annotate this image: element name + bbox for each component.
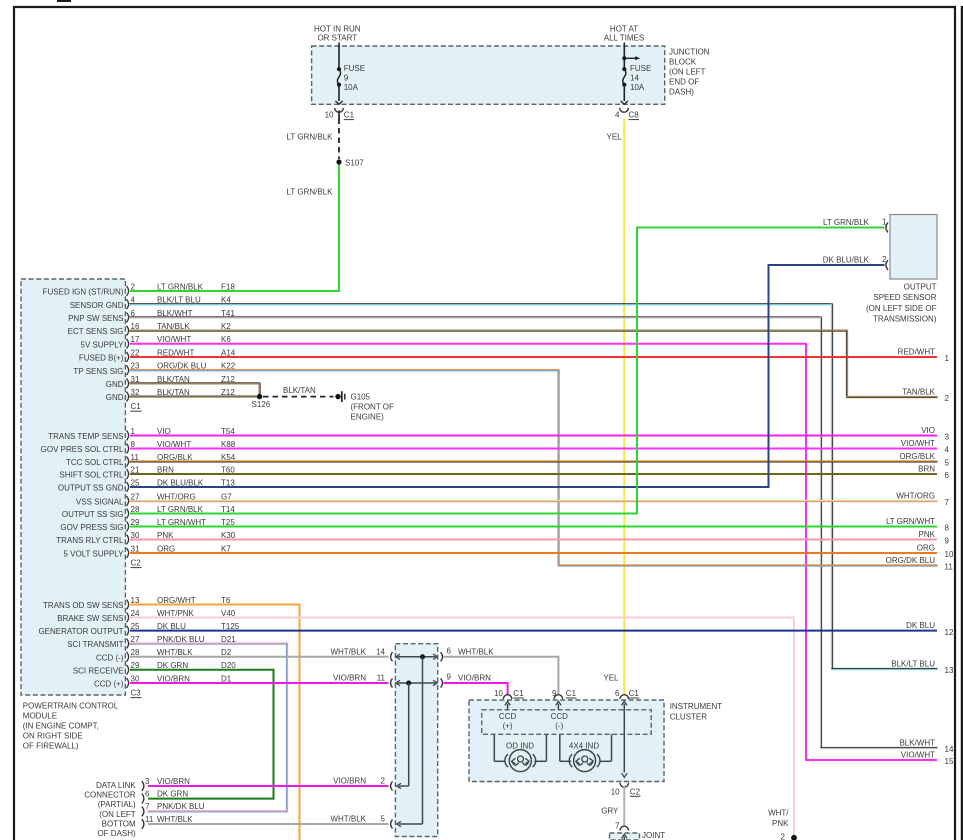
PCM pin 27 VSS SIGNAL WHT/ORG G7 bbox=[76, 492, 232, 506]
svg-text:OR START: OR START bbox=[317, 34, 357, 43]
svg-text:TCC SOL CTRL: TCC SOL CTRL bbox=[66, 458, 124, 467]
right pin 2 TAN/BLK bbox=[902, 387, 949, 403]
svg-text:GENERATOR OUTPUT: GENERATOR OUTPUT bbox=[38, 627, 123, 636]
svg-text:PNK/DK BLU: PNK/DK BLU bbox=[157, 802, 205, 811]
svg-text:VIO/BRN: VIO/BRN bbox=[157, 777, 190, 786]
svg-text:CONNECTOR: CONNECTOR bbox=[84, 791, 136, 800]
wire GRY (cluster C2-10 to joint conn 7) bbox=[623, 786, 625, 827]
svg-text:FUSE: FUSE bbox=[630, 64, 651, 73]
svg-text:OF FIREWALL): OF FIREWALL) bbox=[23, 741, 79, 750]
svg-text:6: 6 bbox=[945, 471, 950, 480]
svg-text:LT GRN/BLK: LT GRN/BLK bbox=[287, 188, 334, 197]
svg-text:VSS SIGNAL: VSS SIGNAL bbox=[76, 498, 124, 507]
junction conn pin 11 (left) bbox=[333, 674, 392, 688]
svg-text:4: 4 bbox=[615, 111, 620, 120]
output speed sensor box bbox=[890, 215, 937, 280]
svg-text:(+): (+) bbox=[503, 722, 513, 731]
PCM pin 22 FUSED B(+) RED/WHT A14 bbox=[79, 348, 236, 362]
svg-text:OF DASH): OF DASH) bbox=[97, 829, 136, 838]
svg-text:(ON LEFT: (ON LEFT bbox=[669, 68, 706, 77]
right pin 10 ORG bbox=[917, 543, 954, 559]
svg-text:C8: C8 bbox=[629, 111, 640, 120]
svg-text:6: 6 bbox=[447, 646, 452, 655]
svg-text:10: 10 bbox=[325, 111, 334, 120]
svg-text:CCD (-): CCD (-) bbox=[96, 653, 124, 662]
PCM pin 2 FUSED IGN (ST/RUN) LT GRN/BLK F18 bbox=[43, 282, 236, 296]
svg-text:11: 11 bbox=[945, 563, 954, 572]
svg-text:TAN/BLK: TAN/BLK bbox=[902, 387, 935, 396]
wire LT GRN/BLK F18 (S107 to PCM pin 2) bbox=[130, 162, 339, 291]
PCM pin 11 TCC SOL CTRL ORG/BLK K54 bbox=[66, 453, 236, 467]
svg-text:GOV PRESS SIG: GOV PRESS SIG bbox=[60, 523, 123, 532]
cluster connector C1 pin 9 bbox=[552, 689, 577, 710]
PCM pin 21 SHIFT SOL CTRL BRN T60 bbox=[59, 465, 235, 479]
wire BLK/LT BLU K4 (PCM 4 to pin 13) bbox=[129, 304, 937, 670]
svg-text:SPEED SENSOR: SPEED SENSOR bbox=[873, 293, 936, 302]
svg-text:VIO/BRN: VIO/BRN bbox=[333, 777, 366, 786]
wire VIO/BRN D1 (PCM 30 to junction conn 11) bbox=[130, 682, 389, 684]
wire BLK/TAN dashed to G105 bbox=[263, 396, 334, 398]
svg-text:DK BLU/BLK: DK BLU/BLK bbox=[823, 256, 870, 265]
PCM pin 30 TRANS RLY CTRL PNK K30 bbox=[56, 531, 236, 545]
right pin 5 ORG/BLK bbox=[899, 452, 949, 468]
PCM pin 32 GND BLK/TAN Z12 bbox=[106, 388, 236, 402]
DLC pin 6 DK GRN bbox=[142, 789, 189, 803]
svg-text:7: 7 bbox=[615, 821, 620, 830]
svg-text:2: 2 bbox=[945, 394, 950, 403]
svg-text:TRANS TEMP SENS: TRANS TEMP SENS bbox=[48, 432, 123, 441]
right pin 3 VIO bbox=[921, 426, 949, 442]
svg-text:(PARTIAL): (PARTIAL) bbox=[98, 800, 136, 809]
svg-text:RED/WHT: RED/WHT bbox=[898, 347, 935, 356]
svg-text:SENSOR GND: SENSOR GND bbox=[70, 301, 124, 310]
svg-text:VIO/WHT: VIO/WHT bbox=[901, 750, 935, 759]
svg-text:FUSED IGN (ST/RUN): FUSED IGN (ST/RUN) bbox=[43, 288, 124, 297]
svg-text:(ON LEFT SIDE OF: (ON LEFT SIDE OF bbox=[866, 304, 937, 313]
wire ORG K7 (PCM 31 to pin 10) bbox=[130, 552, 937, 554]
PCM pin 16 ECT SENS SIG TAN/BLK K2 bbox=[68, 322, 232, 336]
svg-text:4: 4 bbox=[945, 446, 950, 455]
svg-text:(ON LEFT: (ON LEFT bbox=[99, 810, 136, 819]
svg-text:C1: C1 bbox=[629, 689, 640, 698]
right pin 1 RED/WHT bbox=[898, 347, 950, 363]
instrument cluster outer box bbox=[469, 700, 664, 782]
svg-text:ALL TIMES: ALL TIMES bbox=[604, 34, 644, 43]
svg-text:INSTRUMENT: INSTRUMENT bbox=[670, 702, 723, 711]
svg-text:VIO/BRN: VIO/BRN bbox=[458, 674, 491, 683]
cluster internal wire to C2 bbox=[622, 704, 627, 778]
connector C8 pin 4 bbox=[615, 108, 639, 120]
svg-text:WHT/ORG: WHT/ORG bbox=[896, 491, 935, 500]
wire BRN T60 (PCM 21 to pin 6) bbox=[130, 473, 937, 475]
PCM pin 4 SENSOR GND BLK/LT BLU K4 bbox=[70, 296, 232, 310]
svg-text:13: 13 bbox=[945, 666, 954, 675]
cluster connector C1 pin 10 bbox=[494, 689, 524, 710]
powertrain control module box bbox=[21, 279, 125, 695]
svg-text:BLOCK: BLOCK bbox=[669, 58, 697, 67]
svg-text:LT GRN/BLK: LT GRN/BLK bbox=[287, 133, 334, 142]
svg-text:1: 1 bbox=[945, 354, 950, 363]
PCM pin 28 CCD (-) WHT/BLK D2 bbox=[96, 648, 232, 662]
svg-text:C3: C3 bbox=[131, 689, 142, 698]
PCM connector C3 label bbox=[131, 689, 142, 698]
PCM pin 27 SCI TRANSMIT PNK/DK BLU D21 bbox=[67, 635, 236, 649]
wire DK BLU/BLK T13 (PCM 25 to speed sensor 2) bbox=[130, 265, 885, 487]
right pin 9 PNK bbox=[919, 530, 950, 546]
svg-text:OUTPUT SS SIG: OUTPUT SS SIG bbox=[62, 510, 124, 519]
lamp OD IND bbox=[494, 734, 546, 771]
ground G105 bbox=[335, 391, 394, 421]
label HOT AT ALL TIMES bbox=[604, 25, 644, 43]
svg-text:FUSE: FUSE bbox=[344, 64, 365, 73]
label OUTPUT SPEED SENSOR bbox=[866, 283, 937, 324]
right pin 7 WHT/ORG bbox=[896, 491, 949, 507]
label POWERTRAIN CONTROL MODULE bbox=[23, 701, 119, 750]
PCM pin 29 GOV PRESS SIG LT GRN/WHT T25 bbox=[60, 518, 235, 532]
PCM connector C2 label bbox=[131, 559, 142, 568]
wire VIO/WHT K88 (PCM 8 to pin 4) bbox=[130, 448, 937, 450]
fuse 9 10A bbox=[335, 43, 365, 105]
splice S126 bbox=[252, 394, 271, 409]
svg-text:ORG/BLK: ORG/BLK bbox=[899, 452, 935, 461]
wire TAN/BLK K2 (PCM 16 to pin 2) bbox=[129, 330, 937, 398]
cluster connector C1 pin 6 bbox=[615, 689, 639, 705]
svg-text:1: 1 bbox=[882, 218, 887, 227]
svg-text:ENGINE): ENGINE) bbox=[351, 413, 385, 422]
svg-text:CCD (+): CCD (+) bbox=[94, 680, 124, 689]
svg-text:5: 5 bbox=[945, 459, 950, 468]
svg-text:DK BLU: DK BLU bbox=[906, 621, 935, 630]
svg-text:FUSED B(+): FUSED B(+) bbox=[79, 354, 124, 363]
svg-text:C1: C1 bbox=[131, 402, 142, 411]
PCM pin 17 5V SUPPLY VIO/WHT K6 bbox=[81, 335, 232, 349]
svg-text:MODULE: MODULE bbox=[23, 711, 57, 720]
wire WHT/BLK (junction 6 to cluster C1-9) bbox=[444, 657, 559, 696]
svg-text:2: 2 bbox=[882, 255, 887, 264]
PCM pin 24 BRAKE SW SENS WHT/PNK V40 bbox=[57, 609, 236, 623]
svg-text:OUTPUT: OUTPUT bbox=[904, 283, 937, 292]
svg-text:5V SUPPLY: 5V SUPPLY bbox=[81, 340, 125, 349]
connector C1 pin 10 bbox=[325, 108, 355, 120]
splice S107 bbox=[336, 158, 364, 167]
wire WHT/ORG G7 (PCM 27 to pin 7) bbox=[129, 500, 937, 501]
svg-text:HOT IN RUN: HOT IN RUN bbox=[314, 25, 361, 34]
wire LT GRN/BLK dashed from C1 to S107 bbox=[338, 119, 340, 160]
speed sensor pin 1 bbox=[823, 218, 888, 233]
svg-text:14: 14 bbox=[376, 647, 385, 656]
svg-text:S107: S107 bbox=[345, 158, 364, 167]
junction connector box bbox=[395, 644, 437, 837]
svg-text:7: 7 bbox=[145, 802, 150, 811]
instrument cluster inner box bbox=[482, 710, 652, 735]
junction conn pin 2 (left) bbox=[333, 777, 392, 791]
svg-text:HOT AT: HOT AT bbox=[610, 25, 638, 34]
right pin 13 BLK/LT BLU bbox=[891, 659, 954, 675]
svg-text:10A: 10A bbox=[344, 83, 359, 92]
wire PNK/DK BLU D21 (PCM 27 to DLC 7) bbox=[129, 643, 287, 812]
svg-text:10: 10 bbox=[611, 787, 620, 796]
svg-text:9: 9 bbox=[552, 689, 557, 698]
PCM pin 6 PNP SW SENS BLK/WHT T41 bbox=[68, 309, 235, 323]
right pin 14 BLK/WHT bbox=[899, 738, 954, 754]
joint connector internal arrow bbox=[622, 834, 627, 840]
wire BLK/TAN Z12 pin 32 bbox=[129, 396, 257, 397]
svg-text:JUNCTION: JUNCTION bbox=[669, 48, 710, 57]
wire PNK K30 (PCM 30 to pin 9) bbox=[130, 539, 937, 541]
wire VIO T54 (PCM 1 to pin 3) bbox=[130, 435, 937, 437]
svg-text:BOTTOM: BOTTOM bbox=[102, 819, 136, 828]
right pin 4 VIO/WHT bbox=[901, 439, 950, 455]
junction conn internal bus VIO/BRN bbox=[396, 680, 438, 788]
label CCD (+) bbox=[499, 712, 517, 731]
wire WHT/PNK V40 (PCM 24 to bottom pin 2) bbox=[130, 618, 794, 836]
svg-text:VIO/BRN: VIO/BRN bbox=[333, 674, 366, 683]
joint connector box bbox=[610, 833, 640, 840]
svg-text:12: 12 bbox=[945, 628, 954, 637]
wire DK BLU T125 (PCM 25 to pin 12) bbox=[130, 630, 937, 632]
svg-text:2: 2 bbox=[781, 832, 786, 840]
PCM pin 31 5 VOLT SUPPLY ORG K7 bbox=[63, 544, 231, 558]
right pin 15 VIO/WHT bbox=[901, 750, 954, 766]
svg-text:3: 3 bbox=[145, 777, 150, 786]
right pin 8 LT GRN/WHT bbox=[886, 517, 950, 533]
label HOT IN RUN OR START bbox=[314, 25, 361, 43]
PCM pin 29 SCI RECEIVE DK GRN D20 bbox=[73, 661, 236, 675]
svg-text:PNK: PNK bbox=[919, 530, 936, 539]
svg-text:S126: S126 bbox=[252, 400, 271, 409]
svg-text:PNP SW SENS: PNP SW SENS bbox=[68, 314, 123, 323]
svg-text:ECT SENS SIG: ECT SENS SIG bbox=[68, 327, 124, 336]
svg-text:VIO: VIO bbox=[921, 426, 935, 435]
svg-text:TP SENS SIG: TP SENS SIG bbox=[73, 367, 123, 376]
svg-text:END OF: END OF bbox=[669, 78, 699, 87]
PCM pin 8 GOV PRES SOL CTRL VIO/WHT K88 bbox=[41, 440, 236, 454]
lamp 4X4 IND bbox=[560, 734, 612, 771]
svg-text:11: 11 bbox=[377, 674, 386, 683]
svg-text:GND: GND bbox=[106, 380, 124, 389]
svg-text:VIO/WHT: VIO/WHT bbox=[901, 439, 935, 448]
svg-text:G105: G105 bbox=[351, 392, 371, 401]
label JUNCTION BLOCK (ON LEFT END OF DASH) bbox=[669, 48, 710, 97]
wire LT GRN/BLK T14 (PCM 28 to speed sensor 1) bbox=[130, 228, 885, 514]
svg-text:DK GRN: DK GRN bbox=[157, 789, 188, 798]
svg-text:2: 2 bbox=[381, 777, 386, 786]
svg-text:YEL: YEL bbox=[603, 674, 619, 683]
right pin 11 ORG/DK BLU bbox=[886, 556, 954, 572]
svg-text:C2: C2 bbox=[630, 787, 641, 796]
svg-text:WHT/: WHT/ bbox=[768, 808, 789, 817]
wire ORG/DK BLU K22 (PCM 23 to pin 11) bbox=[129, 370, 937, 566]
DLC pin 11 WHT/BLK bbox=[142, 815, 193, 829]
svg-text:CLUSTER: CLUSTER bbox=[670, 713, 708, 722]
svg-text:TRANS RLY CTRL: TRANS RLY CTRL bbox=[56, 536, 124, 545]
svg-text:(-): (-) bbox=[555, 722, 563, 731]
svg-text:TRANSMISSION): TRANSMISSION) bbox=[873, 315, 937, 324]
svg-text:LT GRN/WHT: LT GRN/WHT bbox=[886, 517, 935, 526]
svg-text:POWERTRAIN CONTROL: POWERTRAIN CONTROL bbox=[23, 701, 119, 710]
svg-text:BRN: BRN bbox=[918, 464, 935, 473]
PCM pin 30 CCD (+) VIO/BRN D1 bbox=[94, 674, 232, 688]
svg-text:11: 11 bbox=[145, 815, 154, 824]
svg-text:GOV PRES SOL CTRL: GOV PRES SOL CTRL bbox=[41, 445, 124, 454]
svg-text:WHT/BLK: WHT/BLK bbox=[157, 815, 193, 824]
svg-text:5 VOLT SUPPLY: 5 VOLT SUPPLY bbox=[63, 550, 124, 559]
wire BLK/TAN Z12 pin 31 bbox=[129, 383, 260, 397]
svg-text:JOINT: JOINT bbox=[642, 831, 665, 840]
svg-text:BLK/LT BLU: BLK/LT BLU bbox=[891, 659, 935, 668]
svg-text:OUTPUT SS GND: OUTPUT SS GND bbox=[58, 484, 124, 493]
svg-text:C1: C1 bbox=[566, 689, 577, 698]
svg-text:PNK: PNK bbox=[772, 819, 789, 828]
wire ORG/BLK K54 (PCM 11 to pin 5) bbox=[129, 461, 937, 462]
svg-text:WHT/BLK: WHT/BLK bbox=[330, 815, 366, 824]
svg-text:10: 10 bbox=[945, 550, 954, 559]
wire YEL bbox=[623, 119, 625, 696]
svg-text:BLK/TAN: BLK/TAN bbox=[283, 386, 316, 395]
svg-text:ON RIGHT SIDE: ON RIGHT SIDE bbox=[23, 731, 83, 740]
svg-text:6: 6 bbox=[615, 689, 620, 698]
wire BLK/WHT T41 (PCM 6 to pin 14) bbox=[129, 317, 937, 749]
svg-text:7: 7 bbox=[945, 498, 950, 507]
label CCD (-) bbox=[551, 712, 569, 731]
svg-text:ORG: ORG bbox=[917, 543, 935, 552]
svg-text:14: 14 bbox=[945, 745, 954, 754]
wire VIO/BRN (DLC 3 to junction 2) bbox=[148, 785, 389, 787]
svg-text:TRANS OD SW SENS: TRANS OD SW SENS bbox=[43, 601, 123, 610]
svg-text:C2: C2 bbox=[131, 559, 142, 568]
wire WHT/BLK (DLC 11 to junction 5) bbox=[148, 823, 389, 825]
svg-text:CCD: CCD bbox=[551, 712, 569, 721]
PCM pin 1 TRANS TEMP SENS VIO T54 bbox=[48, 427, 235, 441]
fuse 14 10A bbox=[621, 43, 652, 105]
svg-text:C1: C1 bbox=[344, 111, 355, 120]
label INSTRUMENT CLUSTER bbox=[670, 702, 723, 722]
svg-text:3: 3 bbox=[945, 433, 950, 442]
DLC pin 3 VIO/BRN bbox=[142, 777, 190, 791]
svg-text:15: 15 bbox=[945, 757, 954, 766]
svg-text:SCI RECEIVE: SCI RECEIVE bbox=[73, 666, 124, 675]
wire DK GRN D20 (PCM 29 to DLC 6) bbox=[130, 670, 274, 799]
svg-text:9: 9 bbox=[447, 673, 452, 682]
DLC pin 7 PNK/DK BLU bbox=[142, 802, 205, 816]
svg-text:BLK/WHT: BLK/WHT bbox=[899, 738, 935, 747]
bottom pin 2 WHT/PNK bbox=[768, 808, 797, 840]
junction conn internal bus WHT/BLK bbox=[396, 654, 438, 827]
cluster connector C2 pin 10 bbox=[611, 783, 641, 797]
junction block box bbox=[312, 46, 665, 104]
svg-text:C1: C1 bbox=[513, 689, 524, 698]
svg-text:WHT/BLK: WHT/BLK bbox=[458, 647, 494, 656]
svg-text:9: 9 bbox=[344, 74, 349, 83]
wire ORG/WHT T6 (PCM 13 down off page) bbox=[130, 605, 300, 840]
svg-text:10A: 10A bbox=[630, 83, 645, 92]
label DATA LINK CONNECTOR (PARTIAL) bbox=[84, 781, 136, 838]
wire LT GRN/WHT T25 (PCM 29 to pin 8) bbox=[130, 526, 937, 528]
wire VIO/BRN (junction 9 to cluster C1-10) bbox=[444, 683, 508, 696]
svg-text:9: 9 bbox=[945, 537, 950, 546]
PCM pin 23 TP SENS SIG ORG/DK BLU K22 bbox=[73, 362, 235, 376]
junction conn pin 9 (right) bbox=[441, 673, 492, 688]
svg-text:DATA LINK: DATA LINK bbox=[96, 781, 136, 790]
svg-text:GND: GND bbox=[106, 393, 124, 402]
svg-text:8: 8 bbox=[945, 524, 950, 533]
wire RED/WHT A14 (PCM 22 to pin 1) bbox=[130, 356, 937, 358]
svg-text:(FRONT OF: (FRONT OF bbox=[351, 402, 395, 411]
PCM pin 13 TRANS OD SW SENS ORG/WHT T6 bbox=[43, 596, 231, 610]
junction conn pin 5 (left) bbox=[330, 815, 392, 829]
svg-text:SCI TRANSMIT: SCI TRANSMIT bbox=[67, 640, 123, 649]
svg-text:LT GRN/BLK: LT GRN/BLK bbox=[823, 218, 870, 227]
PCM pin 25 OUTPUT SS GND DK BLU/BLK T13 bbox=[58, 478, 235, 492]
PCM pin 25 GENERATOR OUTPUT DK BLU T125 bbox=[38, 622, 239, 636]
svg-text:5: 5 bbox=[381, 815, 386, 824]
right pin 6 BRN bbox=[918, 464, 949, 480]
svg-text:10: 10 bbox=[494, 689, 503, 698]
svg-text:(IN ENGINE COMPT,: (IN ENGINE COMPT, bbox=[23, 721, 99, 730]
junction conn pin 14 (left) bbox=[330, 647, 392, 661]
svg-text:ORG/DK BLU: ORG/DK BLU bbox=[886, 556, 936, 565]
svg-text:DASH): DASH) bbox=[669, 88, 694, 97]
svg-text:WHT/BLK: WHT/BLK bbox=[330, 647, 366, 656]
wire WHT/BLK D2 (PCM 28 to junction conn 14) bbox=[130, 656, 389, 658]
svg-text:YEL: YEL bbox=[607, 133, 623, 142]
svg-text:BRAKE SW SENS: BRAKE SW SENS bbox=[57, 614, 123, 623]
svg-text:GRY: GRY bbox=[601, 807, 619, 816]
right pin 12 DK BLU bbox=[906, 621, 954, 637]
junction conn pin 6 (right) bbox=[441, 646, 495, 661]
joint connector pin 7 bbox=[615, 821, 629, 830]
PCM pin 31 GND BLK/TAN Z12 bbox=[106, 375, 236, 389]
wire VIO/WHT K6 (PCM 17 to pin 15) bbox=[130, 344, 937, 760]
svg-text:14: 14 bbox=[630, 74, 639, 83]
svg-text:SHIFT SOL CTRL: SHIFT SOL CTRL bbox=[59, 471, 124, 480]
svg-text:6: 6 bbox=[145, 789, 150, 798]
speed sensor pin 2 bbox=[823, 255, 888, 270]
PCM pin 28 OUTPUT SS SIG LT GRN/BLK T14 bbox=[62, 505, 235, 519]
svg-text:CCD: CCD bbox=[499, 712, 517, 721]
PCM connector C1 label bbox=[131, 402, 142, 411]
